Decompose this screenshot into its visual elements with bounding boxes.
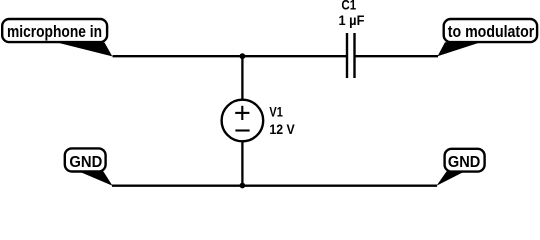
svg-text:1 µF: 1 µF [339,13,365,28]
junction ground node [240,183,246,189]
svg-text:V1: V1 [269,105,283,120]
wire top net: microphone in to C1 left plate [113,55,348,57]
svg-text:C1: C1 [341,0,356,13]
label C1 [341,0,356,13]
wire vertical: top node to V1 positive terminal [241,56,243,100]
ground flag GND right [437,149,485,186]
wire top net: C1 right plate to modulator flag [355,55,439,57]
label V1 [269,105,283,120]
wire vertical: V1 negative terminal to ground net [241,141,243,186]
net flag "microphone in" [2,19,112,56]
ground flag GND left [65,148,113,185]
svg-text:to modulator: to modulator [448,22,535,41]
svg-text:GND: GND [448,154,480,171]
svg-text:GND: GND [69,154,102,171]
wire bottom ground net [112,185,437,187]
capacitor C1 [347,33,355,78]
net flag "to modulator" [438,19,538,56]
value 1 µF [339,13,365,28]
svg-text:microphone in: microphone in [7,22,102,41]
svg-text:12 V: 12 V [269,122,294,137]
value 12 V [269,122,294,137]
voltage source V1 [222,100,264,142]
junction top node [240,53,246,59]
